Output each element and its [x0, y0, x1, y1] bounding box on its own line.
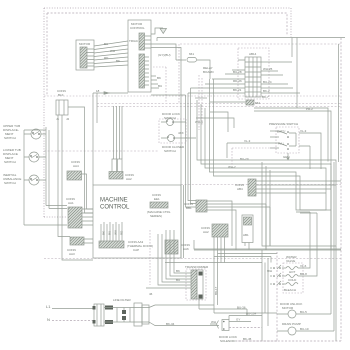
svg-text:BU-20: BU-20: [240, 157, 249, 161]
door switch dashed enclosure: [159, 119, 186, 143]
dashed enclosure top right-bottom: [232, 148, 276, 165]
svg-text:SERIES): SERIES): [150, 214, 162, 218]
dashed vertical x179: [178, 44, 180, 103]
svg-text:WH-2: WH-2: [228, 165, 236, 169]
section dashed line A: [44, 95, 341, 97]
connector AB14: [245, 52, 261, 97]
conn AA4 left: [67, 160, 93, 209]
motor control right stubs: [151, 76, 162, 88]
door lock switch S2: [161, 112, 186, 126]
svg-text:COLD: COLD: [288, 278, 297, 282]
cabinet dashed border right and bottom: [236, 38, 341, 341]
conn EE1: [147, 193, 171, 218]
svg-text:WH: WH: [267, 269, 272, 273]
svg-text:BK-17: BK-17: [214, 286, 218, 295]
drain pump: [236, 252, 334, 341]
svg-text:BU: BU: [104, 42, 108, 46]
conn AB4: [235, 179, 341, 196]
relay board label: [203, 66, 215, 74]
svg-text:BU-28: BU-28: [233, 70, 242, 74]
svg-text:BK: BK: [116, 59, 120, 63]
right lower verticals: [214, 162, 336, 341]
svg-text:AB14: AB14: [249, 52, 257, 56]
svg-text:BB1: BB1: [186, 206, 192, 210]
svg-text:WH: WH: [114, 230, 118, 235]
dashed vertical x150: [149, 230, 151, 285]
svg-text:BU: BU: [176, 278, 180, 282]
svg-text:TRIAC: TRIAC: [129, 39, 139, 43]
svg-text:AB4: AB4: [237, 187, 243, 191]
inner dashed console border: [47, 13, 287, 96]
long dashed run y44: [180, 43, 341, 45]
svg-text:VL-6: VL-6: [300, 264, 307, 268]
svg-text:EMPTY: EMPTY: [277, 131, 286, 134]
wire: bus x181 motor control down: [151, 48, 181, 259]
outer dotted console border: [44, 8, 291, 217]
left bus wires: [24, 127, 67, 225]
svg-text:VL-3: VL-3: [300, 129, 307, 133]
svg-text:(GY)(BU): (GY)(BU): [158, 53, 171, 57]
svg-text:BK-21: BK-21: [233, 88, 242, 92]
svg-text:AA2: AA2: [126, 177, 132, 181]
mid-right verticals to bottom: [214, 250, 268, 341]
section dashed line y184.5: [181, 184, 341, 186]
svg-text:BU: BU: [108, 231, 112, 235]
ground symbol GND1: [151, 28, 167, 34]
svg-text:WH: WH: [211, 320, 216, 324]
conn blk line filter top: [56, 89, 93, 260]
svg-text:VALVE: VALVE: [286, 259, 295, 263]
svg-text:MOTOR: MOTOR: [282, 306, 294, 310]
svg-text:WH: WH: [110, 49, 115, 53]
conn BB1: [184, 200, 270, 250]
inertial unbalance switch S7: [3, 173, 46, 185]
svg-text:WH-25: WH-25: [263, 67, 273, 71]
upper tub displacement switch S5: [3, 124, 46, 140]
svg-text:662: 662: [255, 101, 260, 105]
svg-text:PRESSURE SWITCH: PRESSURE SWITCH: [269, 122, 298, 126]
stair step buses to right field: [194, 79, 341, 250]
svg-text:SWITCH: SWITCH: [4, 160, 16, 164]
svg-text:4XX: 4XX: [178, 131, 184, 135]
door unlock motor: [277, 302, 331, 318]
water valve block: [267, 212, 317, 293]
svg-text:AA3: AA3: [69, 252, 75, 256]
svg-text:BU-10: BU-10: [300, 327, 309, 331]
relay board dashed outline: [238, 48, 269, 99]
wire from BB4 down to long run: [194, 240, 341, 249]
svg-text:DRAIN PUMP: DRAIN PUMP: [282, 322, 301, 326]
conn AA6: [165, 240, 190, 254]
svg-text:CAP: CAP: [133, 248, 139, 252]
arrow wire top middle: [93, 89, 128, 94]
L1 N mains entry: [46, 304, 94, 322]
wire bundle motor to motor control: [94, 41, 128, 67]
svg-text:BK-7: BK-7: [262, 95, 269, 99]
svg-text:N: N: [47, 317, 50, 322]
svg-text:BLEACH: BLEACH: [284, 288, 296, 292]
svg-text:RD: RD: [104, 56, 109, 60]
svg-text:SWITCH: SWITCH: [4, 181, 16, 185]
transformer T1: [185, 265, 209, 309]
svg-text:BU-36: BU-36: [237, 306, 246, 310]
door closed switch S3: [161, 131, 196, 153]
svg-text:BK: BK: [157, 76, 161, 80]
door lock solenoid SOL1: [199, 306, 262, 344]
conn AA2 bottom right: [201, 224, 228, 313]
section dashed line B: [97, 103, 341, 105]
svg-text:SWITCH: SWITCH: [4, 136, 16, 140]
wire: long top run y37.5: [157, 38, 345, 42]
svg-text:AA1: AA1: [68, 201, 74, 205]
section dashed line D: [44, 258, 341, 260]
wire: bus x183.5: [183, 185, 185, 258]
line filter F1: [93, 298, 220, 326]
svg-text:MACHINE: MACHINE: [100, 198, 128, 204]
svg-text:L1: L1: [46, 304, 51, 309]
svg-text:SWITCH: SWITCH: [164, 149, 176, 153]
svg-text:BOARD: BOARD: [203, 70, 215, 74]
svg-text:J2: J2: [66, 117, 70, 121]
svg-text:BU-8: BU-8: [300, 272, 307, 276]
wires to valve enclosure: [214, 254, 277, 263]
svg-text:BU-24: BU-24: [263, 80, 272, 84]
svg-text:MOTOR: MOTOR: [79, 42, 91, 46]
svg-text:HOT: HOT: [289, 270, 296, 274]
machine control board: [93, 185, 181, 258]
wire: vertical x297: [296, 38, 298, 109]
motor M1 box: [76, 40, 94, 70]
section dashed line C: [97, 106, 341, 108]
svg-text:BK-34: BK-34: [166, 322, 175, 326]
svg-text:BU: BU: [158, 84, 162, 88]
svg-text:TRANSFORMER: TRANSFORMER: [185, 265, 209, 269]
wire: 661 feed: [151, 44, 176, 60]
svg-text:BU-5: BU-5: [300, 310, 307, 314]
dashed line E left of door switches: [44, 150, 159, 152]
svg-text:SOLENOID: SOLENOID: [220, 339, 236, 343]
dashed vertical x166: [153, 67, 166, 103]
svg-text:AA6: AA6: [183, 247, 189, 251]
svg-text:RD: RD: [120, 230, 124, 235]
svg-text:PR-2: PR-2: [306, 107, 313, 111]
svg-text:CONTROL: CONTROL: [130, 26, 145, 30]
vertical bus center left: [93, 93, 97, 185]
conn AA2 top: [109, 106, 134, 181]
svg-text:SWITCH: SWITCH: [164, 116, 176, 120]
dashed vertical pair below relay: [199, 75, 202, 130]
svg-text:(THERMAL DOOR): (THERMAL DOOR): [127, 244, 153, 248]
svg-text:RD-26: RD-26: [233, 79, 242, 83]
AB14 left pin wires: [151, 60, 245, 207]
svg-text:BU-134: BU-134: [246, 312, 257, 316]
svg-text:BK: BK: [176, 269, 180, 273]
svg-text:AB1: AB1: [243, 233, 249, 237]
relay box BB4: [242, 215, 253, 250]
svg-text:GY: GY: [236, 318, 240, 322]
svg-text:46: 46: [149, 292, 153, 296]
svg-text:18: 18: [96, 89, 100, 93]
right field verticals upper: [310, 44, 339, 169]
relay RS1 661: [176, 52, 210, 79]
conn AA3 left: [67, 237, 93, 256]
wires below relay board: [195, 98, 234, 132]
connector 662: [210, 100, 331, 166]
svg-text:BK-2: BK-2: [263, 89, 270, 93]
svg-text:EE1: EE1: [154, 197, 160, 201]
svg-text:BK: BK: [102, 231, 106, 235]
wires machine control to transformer: [146, 230, 191, 296]
pin comb bottom of machine control: [99, 222, 153, 252]
svg-text:BK-45: BK-45: [243, 337, 252, 341]
svg-text:CONTROL: CONTROL: [100, 205, 130, 211]
wire bundle y262: [165, 262, 262, 264]
svg-text:LINE FILTER: LINE FILTER: [113, 298, 131, 302]
svg-text:AA2: AA2: [203, 230, 209, 234]
motor control U1 box: [128, 20, 151, 92]
svg-text:AA4: AA4: [73, 164, 79, 168]
pressure switch S4: [227, 122, 321, 169]
wire: vertical x292: [291, 38, 293, 58]
svg-text:661: 661: [189, 52, 194, 56]
lower tub displacement switch S6: [3, 148, 46, 164]
svg-text:BLK: BLK: [58, 93, 64, 97]
svg-text:VL-3: VL-3: [244, 139, 251, 143]
conn AA1 left: [66, 197, 93, 228]
AB14 right pin wires: [261, 62, 300, 93]
svg-text:FULL: FULL: [278, 143, 285, 146]
